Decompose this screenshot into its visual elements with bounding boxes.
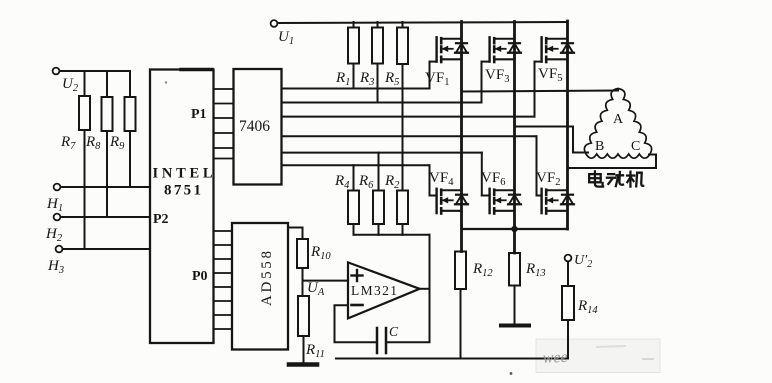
op-amp U1 INTEL 8751 box — [150, 70, 214, 344]
svg-text:R8: R8 — [85, 134, 101, 152]
wire P1 bus 2 — [214, 103, 234, 105]
resistor R8 — [106, 71, 108, 97]
svg-text:A: A — [613, 112, 624, 127]
terminal H3 — [56, 246, 63, 253]
resistor R1 — [353, 22, 355, 28]
buffer 7406 box — [234, 69, 282, 185]
svg-text:H2: H2 — [45, 226, 63, 244]
svg-text:P0: P0 — [192, 269, 208, 284]
wire gate resistor rail — [354, 234, 430, 236]
ground R11 — [289, 362, 317, 367]
svg-text:VF4: VF4 — [429, 170, 454, 188]
wire H2 — [61, 216, 151, 218]
wire U1 top rail — [278, 22, 568, 23]
speck 2 — [165, 81, 167, 83]
svg-text:U1: U1 — [278, 29, 294, 47]
resistor R12 — [455, 252, 466, 290]
wire gate line 5 — [282, 152, 482, 154]
resistor R7 — [84, 71, 86, 96]
resistor R6 — [378, 153, 380, 191]
svg-text:VF5: VF5 — [538, 66, 562, 84]
wire source rail — [462, 228, 568, 230]
svg-text:R3: R3 — [359, 70, 374, 88]
svg-text:AD558: AD558 — [259, 251, 275, 306]
op-amp U2 LM321 — [348, 262, 420, 318]
wire U2 rail — [60, 70, 131, 72]
svg-text:INTEL: INTEL — [153, 166, 213, 182]
resistor R9 — [129, 71, 131, 97]
transistor VF3 — [488, 37, 490, 61]
resistor R4 — [353, 165, 355, 190]
svg-text:U′2: U′2 — [574, 253, 592, 270]
transistor VF4 — [435, 189, 437, 213]
wire P0 bus 4 — [214, 272, 233, 274]
terminal H2 — [54, 214, 61, 221]
resistor R2 — [402, 117, 404, 191]
svg-text:VF6: VF6 — [481, 170, 505, 188]
wire P1 bus 4 — [214, 132, 234, 134]
terminal U1 — [271, 20, 278, 27]
label plus — [352, 274, 363, 276]
wire UA to op-amp — [303, 280, 349, 282]
wire gate line 4 — [282, 135, 537, 137]
resistor R14 — [567, 262, 569, 287]
svg-text:8751: 8751 — [164, 183, 201, 199]
wire phase B — [515, 127, 589, 153]
svg-text:R11: R11 — [305, 342, 325, 360]
svg-text:R7: R7 — [60, 134, 76, 152]
speck 1 — [510, 372, 513, 375]
transistor VF6 — [488, 189, 490, 213]
svg-text:VF3: VF3 — [485, 67, 509, 85]
wire P0 bus 8 — [214, 328, 233, 330]
wire AD558 out — [288, 228, 303, 240]
wire P0 bus 2 — [214, 244, 233, 246]
wire P0 bus 3 — [214, 258, 233, 260]
svg-text:R13: R13 — [525, 261, 546, 279]
wire gate line 3 — [282, 116, 535, 118]
wire column 1 — [460, 22, 463, 252]
svg-text:C: C — [389, 324, 399, 339]
svg-text:U2: U2 — [62, 76, 79, 94]
wire bottom rail — [336, 358, 568, 360]
wire P1 bus 6 — [214, 158, 234, 160]
resistor R5 — [402, 22, 404, 28]
wire P1 bus 5 — [214, 147, 234, 149]
transistor VF5 — [540, 37, 542, 61]
svg-text:R6: R6 — [358, 173, 374, 191]
svg-text:VF2: VF2 — [536, 170, 560, 188]
terminal U'2 — [565, 255, 572, 262]
dac AD558 box — [232, 223, 288, 350]
wire H1 — [61, 186, 151, 188]
resistor R3 — [377, 22, 379, 28]
wire P0 bus 7 — [214, 314, 233, 316]
wire P0 bus 6 — [214, 300, 233, 302]
wire P1 bus 1 — [214, 88, 234, 90]
svg-text:7406: 7406 — [239, 118, 270, 135]
motor delta winding — [584, 89, 651, 159]
resistor R10 — [297, 239, 308, 268]
terminal H1 — [54, 184, 61, 191]
wire phase C — [568, 155, 657, 169]
svg-text:H3: H3 — [47, 258, 64, 276]
resistor R13 — [514, 229, 516, 253]
transistor VF2 — [540, 189, 542, 213]
wire H3 — [63, 248, 151, 250]
watermark box — [536, 339, 660, 373]
svg-text:VF1: VF1 — [425, 70, 449, 88]
resistor R11 — [298, 296, 309, 336]
svg-text:R2: R2 — [384, 173, 400, 191]
wire intel top shade — [181, 68, 212, 71]
svg-text:B: B — [595, 139, 604, 154]
wire column 3 — [566, 21, 569, 229]
label motor 电动机 — [589, 171, 643, 186]
svg-text:P1: P1 — [191, 107, 207, 122]
svg-text:R12: R12 — [472, 261, 493, 279]
svg-text:LM321: LM321 — [351, 283, 397, 298]
svg-text:R4: R4 — [334, 173, 350, 191]
terminal U2 — [53, 68, 60, 75]
svg-text:P2: P2 — [153, 212, 169, 227]
wire phase A — [462, 91, 619, 92]
wire P0 bus 5 — [214, 286, 233, 288]
svg-text:H1: H1 — [46, 196, 63, 214]
wire gate line 2 — [282, 102, 482, 104]
capacitor C — [376, 328, 379, 353]
node source junction — [511, 226, 517, 232]
svg-text:R9: R9 — [109, 134, 125, 152]
svg-text:R10: R10 — [310, 244, 331, 262]
svg-text:wee: wee — [542, 349, 568, 367]
wire gate line 1 — [282, 88, 430, 90]
wire inverting input — [335, 305, 378, 342]
svg-text:R14: R14 — [577, 298, 598, 316]
wire gate line 6 — [282, 164, 430, 166]
wire op-amp output — [420, 288, 430, 290]
wire C to output — [386, 341, 430, 343]
svg-text:C: C — [631, 139, 640, 154]
transistor VF1 — [435, 37, 437, 61]
wire P1 bus 3 — [214, 117, 234, 119]
svg-text:R5: R5 — [384, 70, 399, 88]
ground R13 — [501, 324, 529, 328]
svg-text:R1: R1 — [335, 70, 350, 88]
wire P0 bus 1 — [214, 230, 233, 232]
wire column 2 — [513, 22, 516, 254]
label minus — [352, 304, 363, 307]
